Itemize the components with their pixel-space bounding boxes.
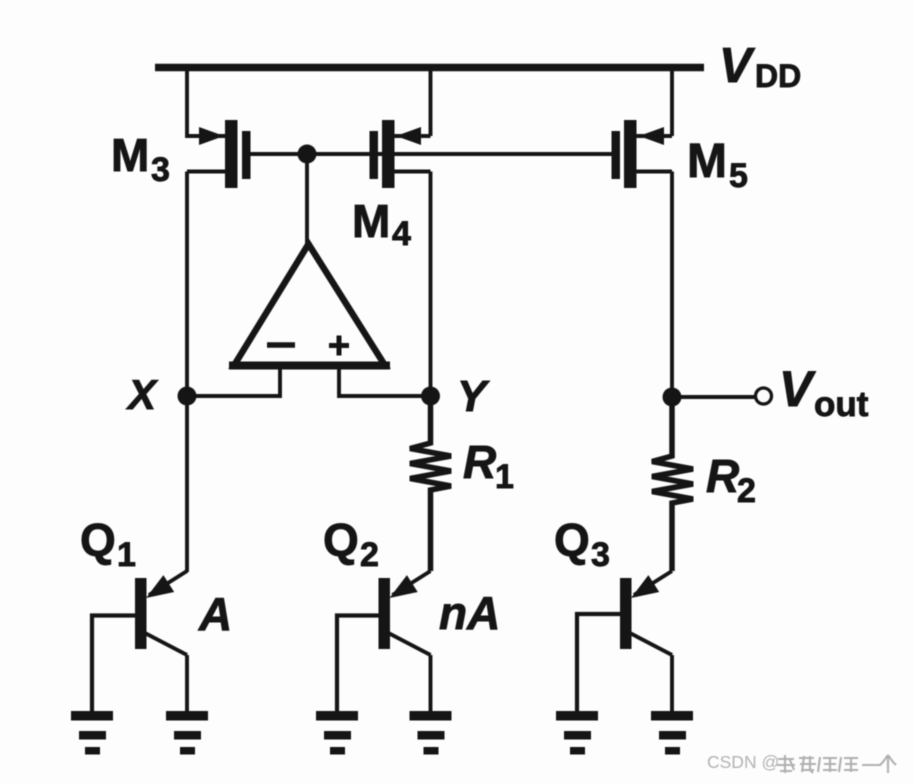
op-amp U1: [229, 244, 390, 366]
transistor M3: [187, 120, 251, 188]
wire op-amp non-inverting input to node Y: [339, 366, 431, 397]
wire VDD rail to M5 source: [670, 68, 674, 137]
wire op-amp output to gate bus: [305, 154, 309, 250]
transistor M5: [612, 120, 673, 188]
svg-text:Q: Q: [554, 514, 590, 566]
node Vout junction: [663, 388, 682, 407]
wire VDD rail: [155, 64, 704, 72]
wire M3 gate to common gate bus: [248, 152, 616, 156]
label Q3: [554, 514, 610, 574]
label VDD: [719, 39, 801, 94]
svg-text:A: A: [198, 588, 232, 640]
svg-text:CSDN @: CSDN @: [707, 752, 779, 772]
resistor R2: [652, 397, 693, 571]
wire Q3 base to ground: [577, 614, 625, 711]
watermark CSDN: [707, 752, 896, 773]
label Vout: [779, 361, 869, 424]
svg-text:Q: Q: [80, 514, 116, 566]
svg-text:1: 1: [495, 458, 514, 496]
wire Q1 collector to ground: [185, 655, 189, 711]
label R1: [463, 436, 514, 496]
svg-text:Y: Y: [457, 372, 490, 421]
resistor R1: [410, 396, 451, 571]
svg-text:R: R: [463, 436, 496, 488]
svg-text:2: 2: [360, 536, 379, 574]
svg-text:2: 2: [737, 472, 756, 510]
svg-text:M: M: [352, 195, 390, 247]
node Y: [421, 387, 440, 406]
wire Q2 collector to ground: [429, 655, 433, 711]
wire M5 drain to output node: [670, 172, 674, 398]
svg-text:4: 4: [392, 215, 411, 253]
svg-text:M: M: [687, 135, 727, 188]
svg-text:Q: Q: [323, 514, 359, 566]
svg-text:1: 1: [117, 536, 136, 574]
label M5: [687, 135, 748, 195]
terminal Vout open circle: [756, 388, 772, 404]
svg-text:V: V: [779, 361, 816, 417]
svg-text:3: 3: [591, 536, 610, 574]
label M4: [352, 195, 411, 253]
ground (Q3 base): [556, 711, 598, 755]
node common gate junction: [298, 145, 317, 164]
transistor Q2: [379, 571, 431, 655]
wire Q2 base to ground: [337, 616, 384, 712]
ground (Q1 collector): [166, 711, 208, 755]
svg-text:DD: DD: [755, 58, 801, 94]
svg-text:5: 5: [729, 157, 748, 195]
label M3: [111, 129, 170, 189]
wire node X to Q1 emitter: [185, 396, 189, 572]
wire VDD rail to M4 source: [429, 68, 433, 137]
ground (Q1 base): [71, 711, 113, 755]
transistor M4: [370, 120, 431, 188]
label Q2: [323, 514, 379, 574]
wire M3 drain to node X: [185, 172, 189, 397]
svg-text:nA: nA: [439, 587, 500, 639]
wire Q1 base to ground: [92, 616, 140, 712]
svg-text:R: R: [706, 450, 739, 502]
svg-text:M: M: [111, 129, 149, 181]
wire output node to Vout terminal: [672, 395, 755, 399]
ground (Q2 collector): [410, 711, 452, 755]
svg-text:3: 3: [151, 151, 170, 189]
svg-text:X: X: [126, 371, 159, 418]
wire M4 drain to node Y: [429, 172, 433, 397]
label R2: [706, 450, 756, 510]
svg-text:out: out: [814, 385, 869, 424]
wire op-amp inverting input to node X: [187, 366, 280, 397]
transistor Q1: [135, 571, 187, 655]
label Q1: [80, 514, 136, 574]
svg-text:V: V: [719, 39, 756, 93]
wire VDD rail to M3 source: [187, 68, 202, 137]
ground (Q3 collector): [651, 711, 693, 755]
node X: [178, 387, 197, 406]
wire Q3 collector to ground: [670, 655, 674, 711]
transistor Q3: [620, 571, 672, 655]
ground (Q2 base): [316, 711, 358, 755]
